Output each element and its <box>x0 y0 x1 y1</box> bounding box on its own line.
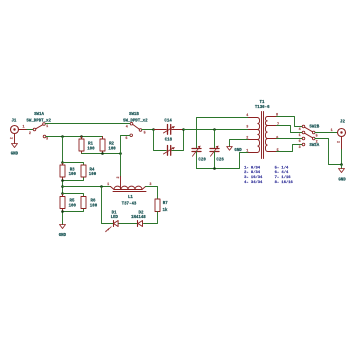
node J2 ground <box>340 163 343 166</box>
svg-text:C14: C14 <box>164 119 172 123</box>
svg-text:R6: R6 <box>91 199 96 203</box>
inductor L1 <box>107 183 151 207</box>
wire to L1 <box>63 186 111 188</box>
node R3 bottom <box>61 179 64 182</box>
J1 pin 1 <box>19 126 28 130</box>
transformer T1 <box>246 101 279 159</box>
wire SW2A common to gnd node <box>315 139 342 165</box>
svg-text:SW_DPDT_x2: SW_DPDT_x2 <box>123 120 148 124</box>
svg-text:1k: 1k <box>163 208 168 213</box>
node R5 bottom <box>61 210 64 213</box>
svg-text:GND: GND <box>234 149 242 153</box>
svg-text:C18: C18 <box>165 139 173 143</box>
switch SW1B <box>123 113 148 141</box>
svg-text:SW1A: SW1A <box>34 113 44 117</box>
svg-text:5- 1/4: 5- 1/4 <box>275 165 289 170</box>
connector J2 <box>338 121 346 137</box>
wire pin4 branch <box>197 118 249 149</box>
svg-text:6- 4/4: 6- 4/4 <box>275 170 289 175</box>
svg-text:1: 1 <box>299 134 301 138</box>
svg-text:3: 3 <box>246 126 248 130</box>
svg-text:1: 1 <box>246 149 248 153</box>
svg-text:GND: GND <box>11 152 19 156</box>
svg-text:SW1B: SW1B <box>129 113 139 117</box>
svg-text:8: 8 <box>276 114 278 118</box>
svg-text:4: 4 <box>126 125 128 129</box>
svg-text:3- 16/34: 3- 16/34 <box>244 175 263 180</box>
transformer tap table <box>244 165 293 185</box>
svg-text:8- 16/16: 8- 16/16 <box>275 180 294 185</box>
diode D2 1N4148 <box>131 212 146 227</box>
svg-text:T130-6: T130-6 <box>255 106 270 110</box>
wire SW1B throw6 down to tap <box>121 136 130 177</box>
wire D1 to left column <box>102 187 113 224</box>
svg-text:2: 2 <box>10 137 14 139</box>
svg-text:R7: R7 <box>163 202 168 206</box>
svg-text:7- 1/16: 7- 1/16 <box>275 175 292 180</box>
svg-text:1- 0/34: 1- 0/34 <box>244 165 261 170</box>
svg-text:C20: C20 <box>198 158 206 162</box>
svg-text:2: 2 <box>117 176 121 178</box>
ground GND at J2 <box>338 165 346 183</box>
J1 pin 2 <box>10 134 14 144</box>
wire pin5 to SW2A throw3 <box>277 145 303 152</box>
svg-text:GND: GND <box>338 179 346 183</box>
svg-text:R4: R4 <box>90 169 95 173</box>
wire SW1A throw3 to resistor bank <box>46 136 103 138</box>
wire L1 to R7 <box>146 187 158 200</box>
node R3 top <box>61 161 64 164</box>
wire J1 to SW1A <box>27 129 33 131</box>
wire SW2B common to J2 <box>315 132 338 134</box>
svg-text:4: 4 <box>299 128 301 132</box>
node R1 top <box>80 135 83 138</box>
L1 tap pin 2 <box>117 176 121 189</box>
capacitor C26 <box>210 130 224 169</box>
svg-text:1: 1 <box>107 183 109 187</box>
switch SW2B <box>299 125 320 144</box>
resistor R6 <box>63 194 98 212</box>
node C14 left <box>152 128 155 131</box>
switch SW2A <box>299 131 320 150</box>
svg-text:100: 100 <box>108 148 116 152</box>
svg-text:2: 2 <box>316 140 318 144</box>
wire SW1B common to C14 node <box>142 129 154 131</box>
svg-text:1: 1 <box>331 129 333 133</box>
resistor R5 <box>60 194 77 212</box>
node C14 right <box>182 128 185 131</box>
svg-text:R1: R1 <box>88 142 93 146</box>
node at x62.5 top <box>61 135 64 138</box>
svg-text:5: 5 <box>277 149 279 153</box>
svg-text:J2: J2 <box>340 121 345 125</box>
svg-text:100: 100 <box>69 205 77 209</box>
wire pin7 to SW2A throw1 <box>277 126 303 133</box>
svg-text:4: 4 <box>246 114 248 118</box>
svg-text:R5: R5 <box>70 199 75 203</box>
node C26 top <box>213 128 216 131</box>
switch SW1A <box>26 113 51 142</box>
ground GND at J1 <box>11 144 19 157</box>
ground GND mid <box>227 147 243 153</box>
wire cap bottoms to transformer pin 1 <box>197 153 249 169</box>
svg-text:D2: D2 <box>139 212 144 216</box>
svg-text:2- 8/34: 2- 8/34 <box>244 170 261 175</box>
wire SW1A throw1 to SW1B throw4 <box>45 123 130 125</box>
svg-text:LED: LED <box>111 216 119 220</box>
J2 pin 2 <box>338 137 342 165</box>
svg-text:1: 1 <box>22 126 24 130</box>
svg-text:SW_DPDT_x2: SW_DPDT_x2 <box>26 119 51 123</box>
svg-text:5: 5 <box>144 131 146 135</box>
svg-text:1: 1 <box>46 125 48 129</box>
svg-text:6: 6 <box>299 140 301 144</box>
wire pin8 to SW2B throw4 <box>277 117 303 127</box>
svg-text:GND: GND <box>59 234 67 238</box>
svg-text:100: 100 <box>89 173 97 177</box>
wire R7 to D2 <box>144 212 158 224</box>
node D-chain branch <box>100 185 103 188</box>
wire left vertical column <box>62 137 64 225</box>
wire D2 to D1 <box>119 223 137 225</box>
ground GND left <box>59 225 67 238</box>
svg-text:T37-43: T37-43 <box>122 203 137 207</box>
svg-text:100: 100 <box>90 205 98 209</box>
resistor R4 <box>63 163 97 181</box>
capacitor C18 <box>154 130 184 156</box>
capacitor C20 <box>192 146 206 169</box>
svg-text:100: 100 <box>69 173 77 177</box>
svg-text:SW2A: SW2A <box>309 144 319 148</box>
node R5 top <box>61 192 64 195</box>
wire transformer pin 2 to ground <box>230 140 249 147</box>
svg-text:R3: R3 <box>70 169 75 173</box>
resistor R2 <box>100 137 116 154</box>
svg-text:4- 34/34: 4- 34/34 <box>244 180 263 185</box>
wire R1/R2 bottoms <box>82 153 121 155</box>
wire main node to transformer pin 3 <box>184 129 249 131</box>
node L1 branch <box>61 185 64 188</box>
svg-text:SW2B: SW2B <box>309 125 319 129</box>
svg-text:2: 2 <box>246 137 248 141</box>
svg-text:C26: C26 <box>216 158 224 162</box>
wire pin6 to SW2B throw6 <box>277 138 303 140</box>
svg-text:5: 5 <box>316 134 318 138</box>
svg-text:D1: D1 <box>112 212 117 216</box>
svg-text:3: 3 <box>46 138 48 142</box>
resistor R3 <box>60 163 77 181</box>
svg-text:J1: J1 <box>11 120 16 124</box>
svg-text:7: 7 <box>277 123 279 127</box>
svg-text:2: 2 <box>338 141 342 143</box>
svg-text:6: 6 <box>125 137 127 141</box>
connector J1 <box>11 120 19 134</box>
svg-text:1N4148: 1N4148 <box>131 216 146 220</box>
svg-text:L1: L1 <box>128 196 133 200</box>
resistor R7 <box>155 199 168 213</box>
diode D1 LED <box>105 212 119 233</box>
svg-text:100: 100 <box>87 148 95 152</box>
resistor R1 <box>79 137 95 154</box>
svg-text:R2: R2 <box>109 142 114 146</box>
svg-text:T1: T1 <box>260 101 265 105</box>
svg-text:3: 3 <box>299 146 301 150</box>
capacitor C14 <box>154 119 184 134</box>
svg-text:2: 2 <box>29 132 31 136</box>
